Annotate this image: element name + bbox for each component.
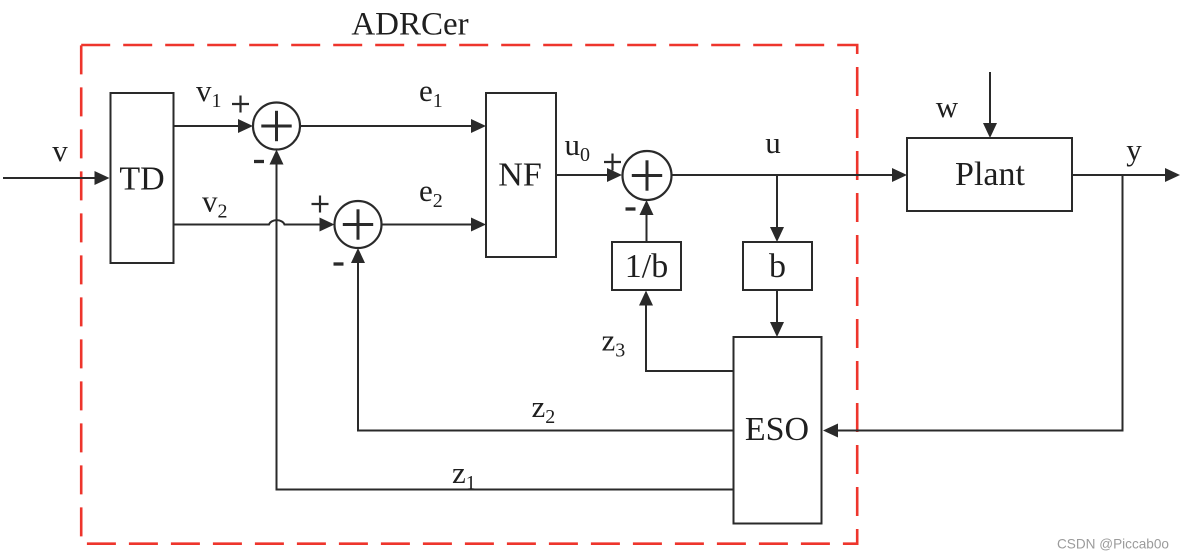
wire v1: TD to S1: [174, 119, 254, 133]
wire v2: TD to S2 with hop: [174, 218, 335, 232]
wire 1/b to S3: [640, 200, 654, 242]
wire e2: S2 to NF: [382, 218, 487, 232]
wire y output: [1072, 168, 1180, 182]
svg-text:v: v: [52, 133, 68, 168]
svg-text:ADRCer: ADRCer: [351, 7, 468, 43]
minus sign at S2: [334, 262, 344, 265]
summing junction S1: [253, 103, 300, 150]
wire u0: NF to S3: [556, 168, 622, 182]
block 1/b: [612, 242, 681, 290]
plus sign at S3: [604, 154, 621, 171]
wire z3: ESO to 1/b: [639, 291, 734, 372]
svg-text:w: w: [936, 89, 959, 124]
plus sign at S2: [312, 196, 329, 213]
wire u branch down to b: [770, 175, 784, 242]
svg-text:b: b: [769, 248, 786, 285]
block b: [743, 242, 812, 290]
wire u: S3 to Plant: [672, 168, 908, 182]
wire y feedback to ESO: [823, 175, 1123, 438]
wire z2: ESO to S2: [351, 248, 734, 431]
svg-text:NF: NF: [498, 157, 541, 194]
plus sign at S1: [232, 96, 249, 113]
ADRCer dashed boundary: [81, 45, 857, 544]
svg-text:CSDN @Piccab0o: CSDN @Piccab0o: [1057, 537, 1169, 552]
wire w into Plant: [983, 72, 997, 138]
wire v input: [3, 171, 110, 185]
svg-text:y: y: [1126, 132, 1142, 167]
wire e1: S1 to NF: [300, 119, 486, 133]
summing junction S2: [335, 201, 382, 248]
wire b to ESO: [770, 290, 784, 337]
wire z1: ESO to S1: [270, 150, 734, 490]
block NF: [486, 93, 556, 257]
block ESO: [734, 337, 822, 524]
block TD: [111, 93, 174, 263]
block Plant: [907, 138, 1072, 211]
svg-text:ESO: ESO: [745, 411, 809, 448]
svg-text:1/b: 1/b: [625, 248, 668, 285]
minus sign at S3: [626, 207, 636, 210]
svg-text:TD: TD: [119, 161, 164, 198]
minus sign at S1: [254, 160, 264, 163]
svg-text:u: u: [765, 125, 781, 160]
svg-text:Plant: Plant: [955, 156, 1025, 193]
summing junction S3: [623, 151, 672, 200]
